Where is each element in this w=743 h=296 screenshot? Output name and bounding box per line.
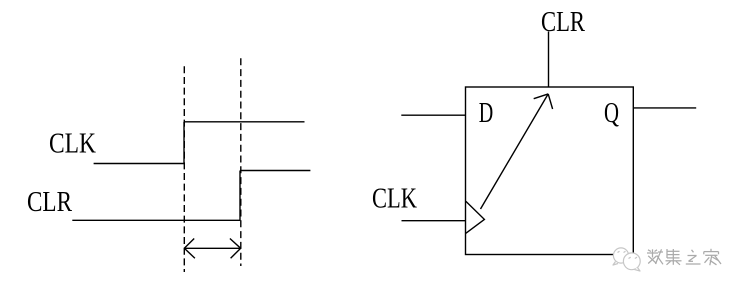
- wire CLR stem: [548, 32, 550, 88]
- dashed cursor line 2 (CLR edge): [240, 58, 242, 266]
- char zhi: [686, 250, 701, 264]
- flip-flop U1 body: [466, 87, 634, 255]
- wire CLR high segment: [240, 170, 310, 172]
- watermark logo (two chat bubbles): [613, 248, 640, 271]
- wire CLR rising edge: [239, 171, 241, 222]
- svg-text:Q: Q: [604, 97, 619, 129]
- wire CLK rising edge: [183, 122, 185, 164]
- pin label Q: [604, 97, 619, 129]
- watermark text (Chinese characters drawn as strokes): [647, 249, 721, 265]
- svg-text:D: D: [479, 97, 494, 129]
- signal label CLK: [49, 128, 96, 160]
- pin label D: [479, 97, 494, 129]
- delay interval double arrow: [184, 239, 240, 259]
- wire CLK input: [402, 220, 466, 222]
- net label CLK (left of clock pin): [372, 183, 417, 215]
- dashed cursor line 1 (CLK edge): [183, 66, 185, 272]
- svg-text:CLR: CLR: [541, 6, 586, 38]
- signal label CLR: [27, 186, 73, 218]
- edge direction arrow: [481, 94, 553, 209]
- svg-text:CLK: CLK: [49, 128, 96, 160]
- net label CLR (top): [541, 6, 586, 38]
- svg-text:CLK: CLK: [372, 183, 417, 215]
- wire CLK low segment: [94, 163, 184, 165]
- wire CLK high segment: [184, 121, 305, 123]
- char ji: [666, 249, 682, 265]
- clock edge triangle: [466, 201, 485, 233]
- svg-text:CLR: CLR: [27, 186, 73, 218]
- wire CLR low segment: [72, 219, 240, 221]
- wire Q output: [633, 107, 696, 109]
- char shu: [647, 249, 663, 264]
- char jia: [704, 249, 721, 265]
- wire D input: [401, 114, 465, 116]
